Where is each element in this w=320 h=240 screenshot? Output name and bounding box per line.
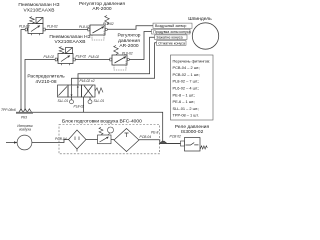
- svg-text:Пневмоклапан НЗ: Пневмоклапан НЗ: [18, 2, 59, 8]
- valve V2 spring: [59, 47, 64, 54]
- valve V1 body: [28, 24, 43, 34]
- fitting regulator2 in: [110, 58, 112, 61]
- manifold comb: [16, 109, 33, 113]
- valve V2 solenoid: [66, 48, 73, 54]
- wire block out to tee and relay: [139, 140, 181, 144]
- svg-text:SLL-01: SLL-01: [58, 99, 69, 103]
- svg-text:PL8-02: PL8-02: [44, 55, 55, 59]
- svg-text:Шпиндель: Шпиндель: [188, 16, 212, 22]
- regulator U1 pilot dashed: [92, 31, 104, 40]
- regulator U1 body: [90, 25, 105, 35]
- svg-text:PCB-04: PCB-04: [55, 137, 67, 141]
- svg-text:PL6-02 – 4 шт.;: PL6-02 – 4 шт.;: [173, 86, 200, 91]
- svg-text:Перечень фитингов:: Перечень фитингов:: [173, 58, 211, 63]
- svg-text:VX210EAAXB: VX210EAAXB: [24, 7, 55, 13]
- regulator U2 out port circle: [127, 58, 129, 60]
- svg-text:4V210-08: 4V210-08: [35, 79, 56, 85]
- wire valve1 out to regulator1 in: [43, 29, 90, 31]
- wire distributor output A to row3: [78, 37, 155, 85]
- fitting valve1 left: [25, 28, 27, 31]
- valve V2 exhaust stubs: [62, 64, 70, 66]
- svg-text:PE-8 – 1 шт.;: PE-8 – 1 шт.;: [173, 92, 196, 97]
- relay input port: [181, 141, 185, 146]
- fitting valve2 left: [55, 58, 57, 61]
- distributor spring: [95, 88, 103, 94]
- regulator U1 spring: [105, 16, 110, 25]
- distributor valve body: [58, 85, 96, 97]
- regulator U2 body: [112, 55, 127, 65]
- air source arrow: [14, 141, 17, 143]
- svg-text:SLL-01 – 2 шт.;: SLL-01 – 2 шт.;: [173, 106, 200, 111]
- svg-text:PL8-02: PL8-02: [89, 55, 100, 59]
- tee TPP-08: [160, 141, 168, 143]
- svg-text:PCB-02 – 1 шт.;: PCB-02 – 1 шт.;: [173, 72, 201, 77]
- muffler SLL-01 right: [89, 97, 91, 100]
- svg-text:Регулятор: Регулятор: [117, 33, 140, 39]
- air block dashed box: [59, 125, 160, 154]
- svg-text:PL8-02: PL8-02: [79, 25, 90, 29]
- fitting valve1 right: [43, 28, 45, 31]
- wire air source to block: [6, 142, 17, 144]
- svg-text:PL8-02: PL8-02: [76, 55, 87, 59]
- fittings list box: [171, 55, 214, 120]
- fitting valve2 right: [73, 58, 75, 61]
- regulator U2 pilot dashed: [114, 61, 126, 70]
- wire distributor output B to row2: [130, 32, 152, 60]
- svg-text:PE-8: PE-8: [151, 130, 158, 134]
- relay spring contact: [200, 146, 207, 149]
- svg-text:PL6-02: PL6-02: [103, 22, 114, 26]
- spindle row4 tag: [157, 41, 187, 46]
- svg-text:SLL-01: SLL-01: [94, 99, 105, 103]
- spindle circle: [192, 23, 218, 49]
- svg-text:AR-2000: AR-2000: [92, 6, 112, 12]
- wire valve2 out to regulator2 in: [73, 59, 112, 61]
- svg-text:PL8-02: PL8-02: [74, 104, 85, 108]
- svg-text:AR-2000: AR-2000: [119, 43, 139, 49]
- regulator U1 out port circle: [105, 28, 107, 30]
- svg-text:PL8-02: PL8-02: [19, 25, 30, 29]
- svg-text:PL8-02 – 7 шт.;: PL8-02 – 7 шт.;: [173, 79, 200, 84]
- svg-text:Регулятор давления: Регулятор давления: [79, 1, 125, 7]
- svg-text:PCB 02: PCB 02: [170, 134, 182, 138]
- wire valve1 left port to down bus: [21, 30, 28, 111]
- wire distributor supply drop: [83, 97, 85, 112]
- wire inside air block: [86, 139, 98, 141]
- lubricator L1 diamond: [114, 129, 139, 152]
- muffler SLL-01 left: [71, 97, 73, 100]
- filter F1 diamond: [69, 130, 87, 152]
- svg-text:PCB-04 – 2 шт.;: PCB-04 – 2 шт.;: [173, 65, 201, 70]
- svg-text:PL8-02: PL8-02: [47, 25, 58, 29]
- spindle row1 tag: [153, 23, 192, 28]
- svg-text:PL6-02: PL6-02: [122, 51, 133, 55]
- spindle row3 tag: [155, 35, 187, 40]
- svg-text:Продувка зоны конуса: Продувка зоны конуса: [153, 30, 190, 34]
- wire regulator1 out to row1: [107, 26, 153, 30]
- valve V1 spring: [30, 17, 35, 24]
- svg-text:PE-6 – 1 шт.;: PE-6 – 1 шт.;: [173, 99, 196, 104]
- svg-text:Пневмоклапан НЗ: Пневмоклапан НЗ: [49, 34, 90, 40]
- wire main supply line: [16, 112, 163, 142]
- svg-text:Распределитель: Распределитель: [27, 74, 65, 80]
- valve V1 exhaust stubs: [32, 34, 40, 36]
- svg-text:Воздушный затвор: Воздушный затвор: [155, 24, 186, 28]
- valve V2 body: [58, 54, 73, 64]
- fitting regulator1 in: [88, 28, 90, 31]
- gauge G1: [108, 133, 110, 135]
- spindle row2 tag: [152, 29, 191, 34]
- svg-text:PL6-02 х2: PL6-02 х2: [80, 79, 95, 83]
- regulator R3 body: [98, 135, 112, 144]
- svg-text:Блок подготовки воздуха ВFС-40: Блок подготовки воздуха ВFС-4000: [62, 119, 142, 125]
- svg-text:TPP-08х6: TPP-08х6: [1, 108, 16, 112]
- regulator R3 spring: [99, 127, 103, 135]
- svg-text:PCB-04: PCB-04: [140, 135, 152, 139]
- svg-text:Зажатие конуса: Зажатие конуса: [156, 36, 182, 40]
- svg-text:Отжатие конуса: Отжатие конуса: [158, 42, 185, 46]
- wire regulator2 out to row4: [72, 43, 158, 85]
- svg-text:IS3000-02: IS3000-02: [181, 129, 204, 135]
- relay body: [185, 138, 201, 152]
- svg-text:TPP-08 – 1 шт.: TPP-08 – 1 шт.: [173, 113, 199, 118]
- svg-text:РК3: РК3: [21, 115, 27, 119]
- regulator U2 spring: [114, 46, 119, 55]
- wire valve2 left port to down bus: [25, 60, 58, 111]
- svg-text:VX210EAAXB: VX210EAAXB: [55, 39, 86, 45]
- air source circle: [17, 135, 32, 150]
- valve V1 solenoid: [36, 18, 43, 24]
- svg-text:воздуха: воздуха: [19, 128, 31, 132]
